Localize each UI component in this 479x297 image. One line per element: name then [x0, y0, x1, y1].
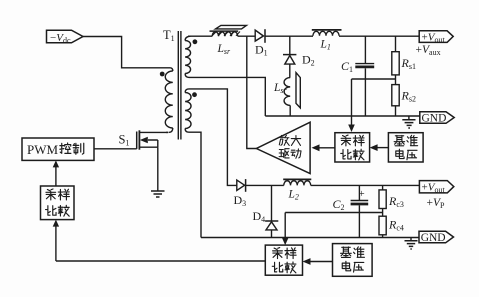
transformer secondary 1 winding	[185, 36, 190, 40]
diode D1	[255, 30, 263, 41]
input terminal flag -Vdc	[47, 30, 84, 43]
lower ground rail	[201, 237, 419, 239]
resistor Rs2	[392, 85, 399, 106]
upper reference-voltage block	[388, 133, 423, 162]
transformer secondary 2 winding	[185, 89, 189, 93]
capacitor C2	[358, 185, 360, 200]
lower sample-compare block	[265, 245, 302, 275]
diode D2	[283, 54, 296, 56]
wire drain to primary	[166, 131, 168, 133]
wire L1 to output flag	[339, 35, 419, 37]
inductor L1	[313, 31, 339, 35]
inductor L2	[284, 181, 311, 186]
wire divider tap	[352, 78, 396, 80]
transformer core	[178, 31, 181, 140]
lower earth ground	[410, 238, 412, 241]
saturable reactor Lsr1	[212, 32, 238, 36]
primary polarity dot	[160, 72, 165, 77]
wire L2 to output flag	[311, 184, 420, 186]
capacitor C1	[364, 36, 366, 63]
upper +Vout flag	[419, 31, 453, 43]
arrow tap to lower sample-compare	[284, 213, 286, 239]
wire rail to D2	[289, 36, 291, 54]
lower GND flag	[419, 231, 454, 243]
wire Lsr1 to D1	[238, 35, 256, 37]
saturable reactor Lsr2	[284, 78, 290, 106]
lower reference-voltage block	[333, 244, 373, 277]
wire secondary2 bottom down	[189, 132, 201, 237]
transformer primary winding	[170, 68, 173, 71]
upper GND flag	[420, 112, 454, 124]
resistor Rc4	[379, 216, 386, 235]
resistor Rc3	[382, 185, 384, 190]
left sample-compare block	[41, 186, 75, 220]
svg-text:+: +	[359, 188, 365, 200]
PWM control block	[22, 138, 94, 160]
wire secondary2 top to D3	[189, 89, 237, 185]
wire D1 to L1	[265, 35, 313, 37]
diode D3	[237, 180, 245, 190]
wire PWM to gate	[94, 148, 137, 150]
arrow lower reference to sample-compare	[310, 261, 333, 263]
svg-text:PWM: PWM	[27, 142, 59, 157]
arrow sample-compare to amp	[318, 147, 335, 149]
mosfet S1	[137, 130, 168, 149]
secondary 2 polarity dot	[192, 92, 197, 97]
upper sample-compare block	[335, 133, 370, 162]
wire lower divider tap	[285, 212, 382, 214]
diode D4 branch	[271, 185, 273, 221]
svg-text:GND: GND	[421, 232, 446, 244]
arrow tap to sample-compare	[351, 79, 353, 125]
arrow sample-compare to PWM	[55, 166, 57, 186]
feedback wire lower sample-compare to left block	[56, 260, 265, 262]
wire secondary1 top rail	[188, 35, 212, 37]
upper earth ground	[408, 116, 410, 120]
resistor Rs1	[395, 36, 397, 52]
arrow feedback into sample-compare	[55, 225, 57, 261]
ground below S1	[151, 191, 165, 197]
lower +Vout flag	[419, 181, 453, 193]
amplifier-driver block	[256, 122, 310, 173]
wire amp output to Lsr1-D1 node	[247, 36, 257, 148]
wire secondary1 bottom to ground rail	[189, 77, 265, 116]
svg-text:GND: GND	[422, 113, 447, 125]
upper ground rail	[265, 115, 420, 117]
wire source to ground	[157, 147, 159, 191]
wire D3 to L2	[246, 184, 284, 186]
secondary 1 polarity dot	[193, 39, 198, 44]
arrow reference to sample-compare	[376, 147, 388, 149]
wire -Vdc to primary	[83, 37, 170, 68]
